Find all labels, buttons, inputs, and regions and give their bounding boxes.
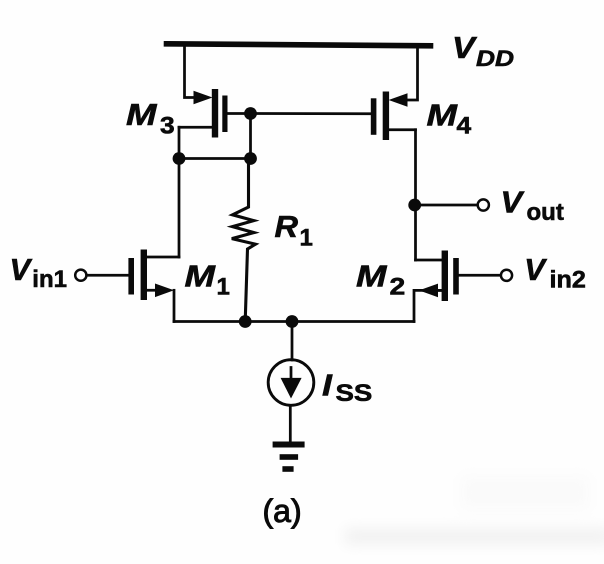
wire M4 drain down to M2 drain xyxy=(414,130,417,260)
label R1 xyxy=(275,209,313,252)
label M2 xyxy=(356,259,405,300)
VDD rail xyxy=(167,44,431,46)
wire tail to current source xyxy=(291,322,294,361)
svg-text:M: M xyxy=(427,98,458,133)
wire M3 source to VDD xyxy=(185,46,197,98)
label Vin2 xyxy=(524,252,586,293)
svg-text:1: 1 xyxy=(217,273,230,300)
svg-text:V: V xyxy=(524,252,547,287)
svg-text:2: 2 xyxy=(390,272,406,299)
svg-text:in1: in1 xyxy=(32,266,67,293)
label M3 xyxy=(126,98,175,140)
wire M1 source to tail xyxy=(173,290,176,321)
svg-text:in2: in2 xyxy=(550,267,586,293)
wire Vin2 lead xyxy=(459,274,501,277)
terminal Vin1 xyxy=(75,270,86,281)
svg-text:3: 3 xyxy=(160,113,175,140)
svg-text:DD: DD xyxy=(476,47,514,71)
label Vin1 xyxy=(10,252,67,293)
svg-text:M: M xyxy=(185,259,216,294)
wire gate node down xyxy=(249,114,252,159)
svg-text:R: R xyxy=(275,209,299,244)
svg-text:(a): (a) xyxy=(263,493,302,529)
transistor M3 xyxy=(179,89,228,138)
label M1 xyxy=(185,259,230,300)
svg-text:4: 4 xyxy=(457,113,472,140)
svg-text:V: V xyxy=(452,30,477,64)
wire common gate M3-M4 xyxy=(229,112,371,115)
label M4 xyxy=(427,98,472,139)
wire current source to ground xyxy=(289,406,292,442)
svg-text:V: V xyxy=(501,184,526,219)
svg-text:I: I xyxy=(322,369,333,403)
wire M4 source to VDD xyxy=(405,46,418,100)
node R1 bottom xyxy=(239,315,252,328)
label ISS xyxy=(322,369,372,407)
node Vout xyxy=(408,199,421,212)
wire Vin1 lead xyxy=(87,274,129,277)
transistor M2 xyxy=(416,251,459,302)
svg-text:M: M xyxy=(126,98,157,133)
svg-text:SS: SS xyxy=(336,381,373,407)
svg-text:M: M xyxy=(356,259,387,294)
label VDD xyxy=(452,30,514,71)
wire drain-gate tie xyxy=(179,157,251,160)
ground xyxy=(273,442,305,472)
wire Vout lead xyxy=(415,204,478,207)
transistor M4 xyxy=(371,92,416,141)
svg-text:V: V xyxy=(10,252,33,287)
svg-text:out: out xyxy=(527,199,564,226)
wire tail line xyxy=(174,320,414,323)
wire M3 drain to M1 drain xyxy=(178,127,181,257)
transistor M1 xyxy=(128,250,179,301)
terminal Vout xyxy=(478,199,489,210)
resistor R1 xyxy=(232,159,256,322)
node gate (diode connection) xyxy=(244,107,257,120)
terminal Vin2 xyxy=(501,270,512,281)
wire M2 source to tail xyxy=(414,290,442,321)
svg-text:1: 1 xyxy=(300,224,313,251)
current source ISS xyxy=(268,360,314,406)
label Vout xyxy=(501,184,564,226)
node tail center xyxy=(286,315,299,328)
node left drain xyxy=(173,152,186,165)
node R1 top xyxy=(244,152,257,165)
